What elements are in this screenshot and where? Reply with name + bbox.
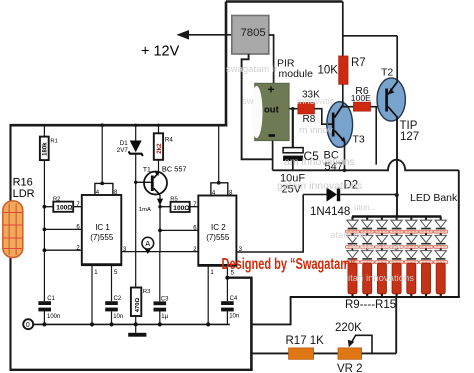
transistor T2 TIP127 [377,78,405,121]
svg-text:R17 1K: R17 1K [286,335,325,347]
svg-text:sw: sw [242,96,254,107]
svg-text:C4: C4 [230,296,238,302]
potentiometer VR2 [335,322,363,373]
wire IC1 pin6 [43,225,82,232]
resistor R8 [298,90,320,126]
svg-text:2V7: 2V7 [117,147,129,154]
svg-text:0: 0 [26,322,30,329]
wire 7805 output to PIR plus [269,35,274,84]
resistor R2 100ohm [43,196,82,211]
wire D2 anode down and left to IC2 pin3 [236,195,303,253]
svg-text:innovatic: innovatic [297,96,335,107]
resistor R11 [377,263,386,297]
svg-text:Designed by “Swagatam”: Designed by “Swagatam” [222,256,356,273]
wire LED top bus [352,215,441,218]
svg-text:R2: R2 [53,196,60,202]
svg-text:swagatam ir: swagatam ir [226,64,277,75]
1mA arrow [139,195,163,213]
wire IC2 pin1 down [207,265,209,324]
svg-text:10n: 10n [113,314,123,320]
svg-text:100Ω: 100Ω [56,205,73,212]
svg-text:(7)555: (7)555 [206,233,230,242]
IC2 pin4-8 bridge [211,181,233,197]
svg-text:T3: T3 [353,134,365,146]
svg-text:+ 12V: + 12V [141,44,180,60]
svg-text:100E: 100E [351,93,371,103]
capacitor C1 100n [38,296,60,324]
wire 7805 ground pin jog down [242,54,273,159]
svg-text:module: module [279,68,314,80]
resistor R5 100ohm [158,197,198,212]
resistor R4 2k2 [154,124,174,172]
svg-text:220K: 220K [335,322,362,334]
resistor R10 [363,263,372,297]
svg-text:watam innov: watam innov [351,242,406,253]
svg-text:T1: T1 [143,166,151,173]
WIRES-POWER [10,2,343,371]
wire IC2 pin5 down [225,265,229,301]
wire R17 row [252,352,288,354]
watermarks [226,64,414,284]
wire left block left edge [9,124,11,371]
svg-text:100Ω: 100Ω [173,205,190,212]
capacitor C5 [280,148,319,196]
resistor R13 [407,263,416,297]
wire C5 top to out wire [292,109,294,148]
transistor T3 BC547 [327,102,353,148]
zener D1 2V7 [117,124,143,156]
wire R7 bottom to T3 collector / R6 [343,84,354,106]
wire PIR out to R8 [289,108,298,110]
svg-text:gatam innovations: gatam innovations [277,180,362,192]
resistor R9 [348,263,357,297]
svg-text:out: out [264,105,280,116]
transistor T1 BC557 [136,165,187,195]
wire thick branch pin5 to vertical [227,277,253,279]
IC1 pin4-8 bridge [95,182,118,197]
svg-text:R7: R7 [351,57,366,69]
svg-text:LED Bank: LED Bank [410,192,458,204]
svg-text:470Ω: 470Ω [135,298,141,313]
capacitor C4 10n [221,296,239,324]
LED column 4 [390,217,404,264]
svg-text:C3: C3 [161,297,169,303]
svg-text:R4: R4 [165,136,173,143]
svg-text:IC 2: IC 2 [211,223,226,232]
svg-text:IC 1: IC 1 [95,223,110,232]
svg-text:D1: D1 [120,140,128,147]
diode D2 1N4148 [303,180,397,219]
svg-text:R8: R8 [303,114,316,125]
svg-text:R1: R1 [50,138,57,144]
wire left block bottom edge [10,369,253,371]
LED column 2 [360,217,374,264]
svg-text:1mA: 1mA [139,207,151,213]
wire R6 to T2 base [371,106,386,108]
svg-text:10K: 10K [318,65,339,77]
wire R16/R1 node vertical [43,160,45,301]
wire rail to R7 and T2 [343,35,397,37]
node 0 terminal [23,319,33,329]
VR2 wiper arrow [348,335,372,353]
svg-text:A: A [145,239,150,248]
junction C5-out [291,107,294,110]
svg-text:R16: R16 [13,177,33,189]
wire R8 to T3 base [314,109,328,125]
wire T2 emitter down to LED bus [396,118,398,217]
arrow +12V [177,30,190,40]
svg-text:BC 557: BC 557 [162,165,187,174]
regulator 7805 [232,16,269,55]
svg-text:atam inn: atam inn [330,230,366,241]
wire D1 to T1 base to R3 [134,155,137,288]
ground line with hop [273,160,459,171]
LED column 6 [419,217,433,264]
wire LED return left [252,297,290,324]
svg-text:C1: C1 [47,296,55,302]
wire T1 emitter node vertical [158,207,198,252]
resistor R12 [392,263,401,297]
IC2 555 [198,196,238,266]
svg-text:am innovations: am innovations [284,156,355,168]
wire +12V horizontal to arrow [178,34,232,36]
wire VR2 to right riser [362,352,397,354]
wire stub below R6 right [375,107,377,165]
wire IC2 vcc riser [218,125,220,183]
IC1 555 [81,195,122,265]
wire PIR minus down to ground line [272,141,274,171]
LED column 7 [434,217,448,264]
svg-text:C2: C2 [114,296,122,302]
wire T2 collector up [396,36,398,82]
wire IC1 vcc riser [100,123,104,183]
resistor R7 [318,56,366,84]
wire right edge down to LED resistor bus [458,170,460,297]
resistor R17 [286,335,325,359]
svg-text:uton...: uton... [354,203,376,212]
node A [142,237,154,254]
PIR module [251,83,289,141]
wire thick vertical +12V riser [225,2,228,127]
svg-text:7805: 7805 [241,27,266,39]
resistor R1 180k [40,125,58,160]
svg-text:100n: 100n [47,314,60,320]
svg-text:R3: R3 [143,289,150,295]
svg-text:itan innovations: itan innovations [348,273,414,284]
capacitor C3 1u [154,252,170,325]
svg-text:1N4148: 1N4148 [310,206,350,218]
resistor R15 [436,263,445,297]
wire LED resistor bottom bus [290,296,460,298]
svg-text:rn innov: rn innov [299,125,333,136]
resistor R14 [422,263,431,297]
svg-text:VR 2: VR 2 [337,363,363,373]
svg-text:180k: 180k [43,142,49,156]
svg-text:(7)555: (7)555 [90,233,114,242]
svg-text:127: 127 [400,131,419,143]
wire top edge +12V feed [226,0,343,3]
wire left block top rail [10,124,228,127]
svg-text:LDR: LDR [13,188,35,200]
svg-text:2k2: 2k2 [156,143,163,154]
svg-text:+: + [268,83,275,97]
wire R17 to VR2 [314,352,338,354]
svg-text:1µ: 1µ [161,314,168,320]
wire T3 emitter to ground [344,142,346,170]
LED column 1 [345,217,359,264]
LDR R16 [3,177,35,258]
LEFT BLOCK [3,123,239,336]
capacitor C2 10n [105,265,123,325]
wire IC1 pin2 [43,245,82,252]
LED column 5 [404,217,418,264]
resistor R3 470ohm [131,288,150,333]
wire LED bus down to VR2 wire [395,297,397,353]
wire ground bus [33,322,230,326]
svg-text:R5: R5 [170,197,177,203]
svg-text:10n: 10n [229,314,239,320]
wire IC1 pin1 down [91,265,93,325]
LED column 3 [375,217,389,264]
svg-text:R9----R15: R9----R15 [345,299,396,311]
junction D2-LED feed [395,193,399,197]
svg-text:T2: T2 [381,67,393,79]
ground symbol [128,333,146,337]
resistor R6 [351,85,371,111]
wire thick vertical right of left block [250,277,253,371]
wire IC1 pin3 to IC2 pin2 [121,247,198,253]
